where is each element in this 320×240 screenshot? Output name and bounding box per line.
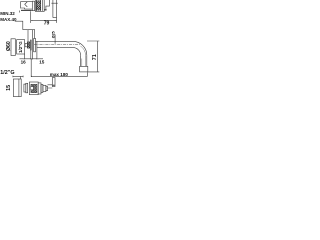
hatch cell lower <box>37 6 41 11</box>
dark bar under lever <box>21 10 32 11</box>
collar <box>32 1 34 11</box>
svg-text:max 180: max 180 <box>50 72 69 77</box>
svg-text:16: 16 <box>21 59 27 64</box>
union box <box>17 40 25 54</box>
svg-text:Ø60: Ø60 <box>6 41 12 51</box>
body outer <box>35 0 44 11</box>
svg-text:MIN.32: MIN.32 <box>0 11 15 16</box>
centerline <box>34 44 81 46</box>
neck <box>24 84 26 92</box>
svg-text:79: 79 <box>44 21 50 27</box>
hook arrows <box>27 28 35 31</box>
svg-text:1/2"G: 1/2"G <box>0 70 14 76</box>
stub lines <box>48 85 53 88</box>
dark stub <box>44 9 46 10</box>
svg-text:1/2"G: 1/2"G <box>18 41 23 53</box>
dim 79 <box>31 11 57 23</box>
junction dot <box>31 76 32 77</box>
plate plan <box>13 79 21 97</box>
aerator <box>80 66 88 72</box>
dim half inch <box>13 76 23 79</box>
steps <box>38 83 41 94</box>
outlet plan <box>52 78 55 87</box>
union step <box>46 0 50 10</box>
dim max180 <box>31 59 87 76</box>
hatch cell upper <box>37 0 41 4</box>
plate <box>11 39 15 56</box>
nut notch <box>31 87 34 90</box>
wall section <box>51 0 57 18</box>
MIN tick <box>19 11 21 13</box>
spout curve outer <box>73 41 87 55</box>
outlet tube <box>81 55 87 66</box>
spout tube <box>36 41 74 47</box>
svg-text:15: 15 <box>6 85 12 91</box>
nut hatched <box>27 42 30 48</box>
body inner cartridge <box>36 0 42 11</box>
neck2 <box>26 83 28 93</box>
outlet inner walls <box>80 46 85 67</box>
nut plan hatched <box>29 82 38 95</box>
hook verticals <box>28 30 35 60</box>
lever wedge <box>25 2 28 7</box>
lever outline <box>21 1 33 9</box>
nipple <box>25 43 27 46</box>
washer <box>29 40 32 50</box>
svg-text:MAX.40: MAX.40 <box>0 17 17 22</box>
spout curve inner <box>73 48 81 56</box>
dia25 leader <box>54 35 56 44</box>
svg-text:15: 15 <box>39 59 45 64</box>
joint line <box>36 41 38 59</box>
flange <box>34 38 36 51</box>
svg-text:Ø25: Ø25 <box>51 31 55 38</box>
MAX leader <box>15 21 35 30</box>
dim 16-15 <box>20 50 44 59</box>
svg-text:71: 71 <box>92 54 98 60</box>
dim 71 <box>87 41 99 72</box>
